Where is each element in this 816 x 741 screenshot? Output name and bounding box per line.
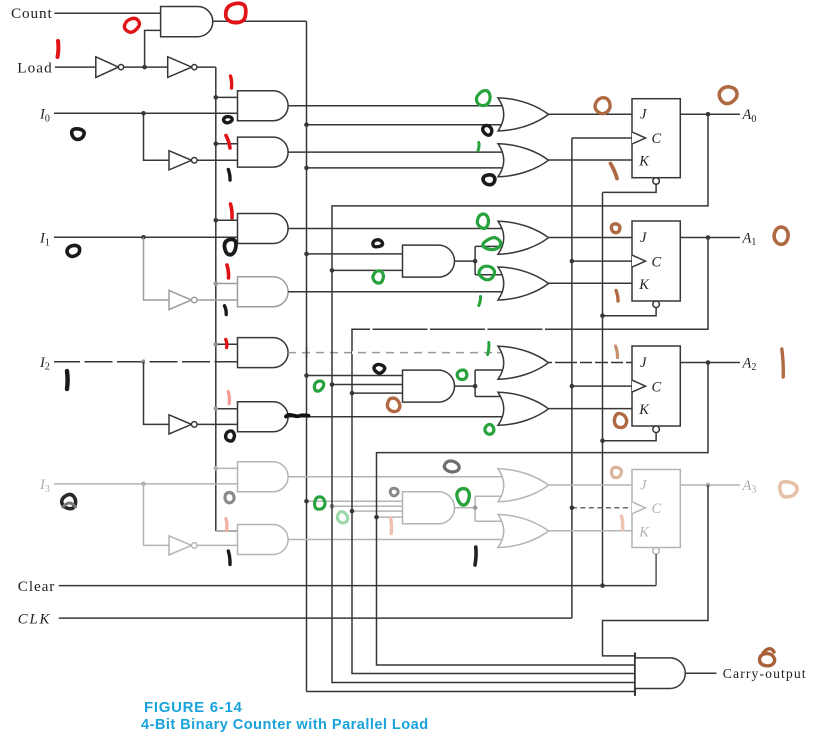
scribble: black ring above CT1 <box>373 239 383 247</box>
OR gate O2a (J input) <box>498 346 549 379</box>
scribble: brown tick below FF1 K <box>616 291 618 302</box>
inverter U2 (Load second inverter) <box>168 57 192 78</box>
svg-text:K: K <box>638 154 650 170</box>
junction: A0 output node <box>706 112 711 117</box>
wire: faded overlay on I2 line <box>80 360 236 363</box>
scribble: pale ring before FF3 <box>612 467 622 477</box>
AND gate CT3 (count chain) <box>403 492 455 524</box>
wire: K input line bit1 <box>549 282 633 284</box>
wire: load-enable turn into AND gate A3b <box>216 530 238 532</box>
scribble: gray blob above CT3 <box>443 459 460 473</box>
wire: A0 node to label <box>708 113 740 115</box>
scribble: green ring on CT2 arc <box>457 370 467 380</box>
wire: G1 output to Count vertical <box>213 20 307 22</box>
scribble: brown ring before FF0 <box>595 98 610 114</box>
wire: chain branch vertical bit2 <box>474 370 476 397</box>
svg-text:4-Bit Binary Counter with Para: 4-Bit Binary Counter with Parallel Load <box>141 717 429 733</box>
wire: A2 node to label <box>708 362 740 364</box>
AND gate A3b (Load AND I3') <box>238 525 289 555</box>
svg-text:C: C <box>652 254 662 270</box>
wire: count-chain input 3 bit3 <box>377 516 403 518</box>
wire: I1 input line <box>54 236 238 238</box>
wire: count-chain input 1 bit3 <box>332 505 403 507</box>
wire: Count input line <box>54 12 160 14</box>
junction: count-chain input 1 bit1 <box>330 268 335 273</box>
wire: I0 drop to inverter <box>144 113 170 160</box>
scribble: black ring below I0 <box>71 128 85 141</box>
scribble: green ring below CT1 <box>479 266 495 280</box>
wire: chain branch vertical bit3 <box>474 496 476 521</box>
scribble: brown ring near FF2 clear <box>614 413 626 427</box>
wire: K input line bit0 <box>549 159 633 161</box>
junction: load-enable / AND A3a <box>214 466 219 471</box>
wire: chain branch to OR O3b <box>475 520 504 522</box>
wire: I1' to AND gate A1b <box>197 299 237 301</box>
scribble: green ring below OR O2b <box>485 424 494 434</box>
svg-text:J: J <box>640 107 647 123</box>
wire: I2 input line <box>54 361 238 363</box>
wire: load-enable stub to AND A1a <box>216 219 238 221</box>
wire: FF3 clear bubble drop to Clear line <box>655 554 657 586</box>
junction: CLK vertical / FF1 <box>570 259 575 264</box>
wire: clock stub to FF3 pin C <box>572 507 632 509</box>
scribble: pink tick bit3 chain <box>389 518 393 534</box>
AND gate G2 (carry output) <box>635 658 685 689</box>
scribble: black ring above CT2 <box>373 364 385 374</box>
wire: I3 drop to inverter <box>144 484 170 546</box>
scribble: black ring below I1 <box>66 244 82 258</box>
wire: faded overlay on A1 feedback <box>370 328 600 330</box>
wire: AND A0b output to OR O0b <box>288 151 504 153</box>
scribble: red tick above Load <box>56 41 61 57</box>
OR gate O0b (K input) <box>498 144 549 177</box>
scribble: green ring above OR O1a <box>477 214 488 228</box>
junction: count-chain input 0 bit3 <box>304 499 309 504</box>
AND gate G1 (Count enable, top) <box>161 7 213 37</box>
svg-text:CLK: CLK <box>18 612 51 628</box>
scribble: green ring left of CT1 <box>373 271 384 283</box>
scribble: black ring below OR O0b <box>483 175 495 185</box>
svg-text:K: K <box>638 402 650 418</box>
wire: chain branch to OR O1b <box>475 274 504 276</box>
junction: I3 branch <box>141 482 146 487</box>
wire: chain branch to OR O2b <box>475 396 504 398</box>
junction: chain output bit3 <box>473 506 478 511</box>
wire: count-chain input 1 bit2 <box>332 384 403 386</box>
wire: load-enable stub to AND A3b <box>216 530 238 532</box>
OR gate O3b (K input) <box>498 515 549 548</box>
junction: CLK vertical / FF2 <box>570 384 575 389</box>
wire: Load input line <box>55 66 96 68</box>
wire: load-enable stub to AND A0b <box>216 143 238 145</box>
junction: load-enable / AND A0b <box>214 141 219 146</box>
wire: FF1 clear bubble route <box>603 308 657 316</box>
scribble: black tick bit1 inverter <box>225 306 227 315</box>
wire: J input line bit2 <box>549 362 633 364</box>
wire: Load-enable branch to count AND <box>145 30 161 67</box>
scribble: brown ring above A0 <box>718 85 739 105</box>
wire: CLK vertical bus <box>571 138 573 618</box>
JK flip-flop FF3 (output A3) with pins J C K <box>632 470 680 555</box>
JK flip-flop FF0 (output A0) with pins J C K <box>632 99 680 185</box>
junction: Count vertical / OR O0b <box>304 166 309 171</box>
svg-text:Clear: Clear <box>18 578 55 595</box>
junction: Count vertical / OR O0a <box>304 122 309 127</box>
svg-text:C: C <box>652 131 662 147</box>
scribble: green ring above OR O0a <box>475 89 491 106</box>
scribble: gray ring bit3 AND1 <box>225 492 234 502</box>
scribble: black ring bit2 inverter <box>226 431 235 441</box>
wire: chain branch vertical bit1 <box>474 246 476 274</box>
scribble: green ring on Count vertical bit2 <box>314 381 323 391</box>
wire: J input line bit3 <box>549 484 633 486</box>
wire: load-enable vertical bus <box>215 67 217 531</box>
wire: load-enable stub to AND A3a <box>216 467 238 469</box>
scribble: red tick bit1 AND1 <box>231 204 233 218</box>
wire: Clear vertical bus <box>602 192 604 585</box>
scribble: red tick bit0 AND2 <box>226 136 230 149</box>
wire: load-enable stub to AND A0a <box>216 96 238 98</box>
wire: I2 drop to inverter <box>144 362 170 425</box>
scribble: pink tick near FF3 K <box>622 516 623 530</box>
wire: clock stub to FF2 pin C <box>572 385 632 387</box>
inverter U6 (I3 complement) <box>169 536 192 555</box>
scribble: green tick below OR O1b <box>479 297 481 306</box>
junction: chain output bit2 <box>473 384 478 389</box>
wire: FF2 output to A2 node <box>680 362 708 364</box>
wire: I0' to AND gate A0b <box>197 159 237 161</box>
wire: Count vertical bus <box>306 21 308 691</box>
wire: Count vertical into carry gate <box>307 691 636 693</box>
wire: carry AND input bar <box>634 653 636 696</box>
scribble: dark pretzel below I3 <box>60 493 77 510</box>
scribble: black tick bit3 inverter <box>228 551 230 565</box>
wire: I3 input line <box>54 483 238 485</box>
wire: I1 drop to inverter <box>144 237 170 300</box>
wire: chain AND CT2 output <box>455 385 476 387</box>
junction: Clear vertical / FF2 <box>600 438 605 443</box>
wire: count-chain input 0 bit3 <box>307 500 403 502</box>
scribble: dark tick below CT3 junction <box>475 547 476 565</box>
junction: load-enable / AND A2b <box>214 407 219 412</box>
svg-text:Carry-output: Carry-output <box>723 666 807 681</box>
junction: I2 branch <box>141 359 146 364</box>
AND gate A2b (Load AND I2') <box>238 402 289 432</box>
scribble: red ring on G1 output <box>226 3 246 22</box>
scribble: black ring between OR O0a/O0b <box>483 125 492 135</box>
wire: inverter U1 output to U2 <box>124 66 168 68</box>
wire: A0 feedback (down, left, down to carry gate) <box>332 114 708 682</box>
wire: chain branch to OR O2a <box>475 369 504 371</box>
scribble: brown ring on CT2 <box>386 397 401 413</box>
wire: AND A3b output to OR O3b <box>288 539 504 541</box>
scribble: light green ring bit3 chain <box>337 512 347 523</box>
wire: Count to OR O0a <box>307 124 505 126</box>
AND gate A3a (Load AND I3) <box>238 462 289 492</box>
scribble: red ring near count AND <box>123 17 141 34</box>
scribble: red tick bit2 AND1 <box>226 340 227 348</box>
OR gate O3a (J input) <box>498 469 549 502</box>
wire: load-enable stub to AND A2b <box>216 408 238 410</box>
wire: AND A2b output to OR O2b <box>288 416 504 418</box>
wire: AND A0a output to OR O0a <box>288 105 504 107</box>
svg-text:Load: Load <box>17 59 53 76</box>
wire: FF0 output to A0 node <box>680 113 708 115</box>
wire: AND A1b output to OR O1b <box>288 291 504 293</box>
wire: Count vertical repair at faded band <box>306 347 308 358</box>
wire: count-chain input 0 bit1 <box>307 253 403 255</box>
junction: Clear vertical / FF1 <box>600 313 605 318</box>
wire: Count to OR O0b <box>307 167 505 169</box>
junction: count-chain input 2 bit3 <box>350 509 355 514</box>
OR gate O1b (K input) <box>498 267 549 300</box>
JK flip-flop FF1 (output A1) with pins J C K <box>632 221 680 308</box>
junction: count-chain input 1 bit3 <box>330 504 335 509</box>
wire: faded overlay on J2 line <box>552 361 568 363</box>
junction: Clear line / clear vertical <box>600 583 605 588</box>
inverter U5 (I2 complement) <box>169 415 192 434</box>
wire: count-chain input 0 bit2 <box>307 375 403 377</box>
wire: load-enable stub to AND A2a <box>216 343 238 345</box>
OR gate O0a (J input) <box>498 98 549 131</box>
wire: I0 input line <box>54 112 238 114</box>
wire: J input line bit0 <box>549 113 633 115</box>
wire: carry output line <box>685 672 716 674</box>
wire: clock stub to FF1 pin C <box>572 260 632 262</box>
junction: A3 output node <box>706 483 711 488</box>
JK flip-flop FF2 (output A2) with pins J C K <box>632 346 680 433</box>
svg-text:J: J <box>640 355 647 371</box>
wire: CLK input line <box>59 617 572 619</box>
junction: count-chain input 0 bit1 <box>304 252 309 257</box>
wire: J input line bit1 <box>549 237 633 239</box>
wire: FF2 clear bubble route <box>603 433 657 441</box>
scribble: green tick below OR O0a <box>478 143 479 151</box>
wire: clock stub to FF0 pin C <box>572 137 632 139</box>
scribble: green ring right of CT1 <box>482 237 502 251</box>
wire: load-enable stub to AND A1b <box>216 283 238 285</box>
AND gate A0b (Load AND I0') <box>238 137 289 167</box>
wire: A2 feedback (down, left, down to carry gate) <box>377 363 709 666</box>
scribble: black tick bit0 <box>228 170 230 181</box>
scribble: pink tick bit3 AND2 <box>224 519 228 531</box>
junction: A1 output node <box>706 235 711 240</box>
svg-text:C: C <box>652 501 662 517</box>
svg-text:C: C <box>652 379 662 395</box>
junction: I0 branch <box>141 111 146 116</box>
scribble: green ring bit3 count input <box>315 497 325 509</box>
scribble: red tick below U2 <box>231 76 232 88</box>
AND gate CT1 (count chain) <box>403 245 455 277</box>
wire: chain AND CT3 output <box>455 507 476 509</box>
wire: I3' to AND gate A3b <box>197 544 237 546</box>
scribble: brown ring right of A1 <box>774 227 788 244</box>
junction: load-enable / AND A0a <box>214 95 219 100</box>
wire: A3 feedback to carry gate <box>603 485 709 656</box>
wire: chain branch to OR O1a <box>475 245 504 247</box>
AND gate A1a (Load AND I1) <box>238 214 289 244</box>
wire: FF3 output to A3 node <box>680 484 708 486</box>
wire: A3 node to label <box>708 484 740 486</box>
svg-text:J: J <box>640 230 647 246</box>
AND gate A2a (Load AND I2) <box>238 338 289 368</box>
scribble: brown a before FF1 <box>611 224 620 233</box>
scribble: green tick above OR O2a <box>488 343 489 355</box>
junction: count-chain input 2 bit2 <box>350 391 355 396</box>
OR gate O1a (J input) <box>498 221 549 254</box>
junction: A2 output node <box>706 360 711 365</box>
wire: AND A1a output to OR O1a <box>288 228 504 230</box>
junction: count-chain input 1 bit2 <box>330 382 335 387</box>
AND gate A0a (Load AND I0) <box>238 91 289 121</box>
junction: load-enable / AND A1b <box>214 281 219 286</box>
junction: count-chain input 3 bit3 <box>374 515 379 520</box>
wire: AND A2a output to OR O2a (faded) <box>288 352 504 354</box>
junction: Load' branch <box>142 65 147 70</box>
inverter U3 (I0 complement) <box>169 151 192 170</box>
AND gate A1b (Load AND I1') <box>238 277 289 307</box>
wire: chain branch to OR O3a <box>475 495 504 497</box>
svg-text:FIGURE 6-14: FIGURE 6-14 <box>144 699 243 716</box>
junction: load-enable / AND A2a <box>214 342 219 347</box>
junction: I1 branch <box>141 235 146 240</box>
scribble: brown scribble above Carry-output <box>758 651 776 668</box>
wire: A1 feedback (down, left, down to carry gate) <box>352 238 708 674</box>
svg-text:K: K <box>638 277 650 293</box>
inverter U1 (Load first inverter) <box>96 57 119 78</box>
wire: A1 node to label <box>708 237 740 239</box>
wire: AND A3a output to OR O3a <box>288 476 504 478</box>
wire: I2' to AND gate A2b <box>197 423 237 425</box>
junction: chain output bit1 <box>473 259 478 264</box>
wire: count-chain input 2 bit2 <box>352 392 403 394</box>
svg-text:Count: Count <box>11 5 53 22</box>
wire: faded overlay on A2a output <box>296 351 497 354</box>
scribble: brown tick right of A2 <box>782 349 784 377</box>
scribble: black squiggle on A2b output <box>286 415 309 417</box>
svg-text:J: J <box>640 478 647 494</box>
wire: chain AND CT1 output <box>455 260 476 262</box>
scribble: black small o bit0 <box>224 117 233 123</box>
wire: K input line bit3 <box>549 530 633 532</box>
wire: count-chain input 2 bit3 <box>352 510 403 512</box>
AND gate CT2 (count chain) <box>403 370 455 402</box>
wire: K input line bit2 <box>549 408 633 410</box>
inverter U4 (I1 complement) <box>169 290 192 309</box>
junction: CLK vertical / FF3 <box>570 506 575 511</box>
wire: count-chain input 1 bit1 <box>332 269 403 271</box>
scribble: brown tick before FF2 <box>616 346 618 358</box>
junction: load-enable / AND A1a <box>214 218 219 223</box>
junction: count-chain input 0 bit2 <box>304 373 309 378</box>
scribble: green ring right of CT3 <box>457 489 470 506</box>
scribble: pale ring right of A3 <box>780 482 797 497</box>
wire: FF1 output to A1 node <box>680 237 708 239</box>
wire: FF0 clear bubble route <box>603 184 657 192</box>
scribble: black bar below I2 <box>65 371 70 389</box>
OR gate O2b (K input) <box>498 392 549 425</box>
wire: Clear input line <box>59 585 656 587</box>
scribble: gray ring left of CT3 <box>390 488 398 496</box>
scribble: faded red tick bit2 AND2 <box>228 392 229 404</box>
scribble: black ring on AND A1a input <box>224 239 236 254</box>
scribble: brown tick below FF0 K <box>611 164 618 179</box>
svg-text:K: K <box>638 524 650 540</box>
wire: U2 output to load-enable vertical <box>197 66 216 68</box>
scribble: red tick bit1 AND2 <box>227 265 229 278</box>
